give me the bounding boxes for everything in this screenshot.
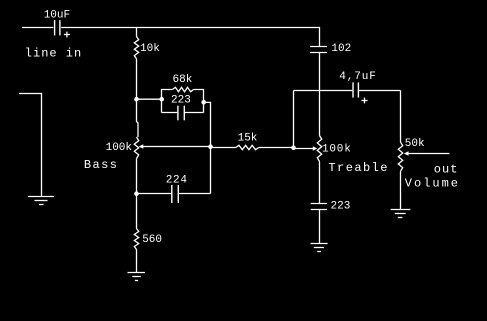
svg-text:4,7uF: 4,7uF [339, 71, 377, 83]
svg-text:10k: 10k [140, 43, 160, 55]
svg-text:15k: 15k [238, 132, 258, 144]
svg-text:out: out [434, 163, 459, 177]
svg-text:100k: 100k [106, 142, 133, 154]
svg-text:Bass: Bass [84, 158, 118, 172]
svg-text:10uF: 10uF [44, 9, 70, 21]
svg-text:223: 223 [331, 201, 351, 213]
svg-text:68k: 68k [173, 74, 193, 86]
svg-text:Volume: Volume [405, 176, 460, 190]
svg-text:223: 223 [171, 94, 191, 106]
svg-text:102: 102 [331, 43, 351, 55]
svg-text:100k: 100k [322, 143, 352, 155]
svg-text:560: 560 [142, 234, 162, 246]
svg-text:Treable: Treable [328, 161, 389, 175]
svg-text:50k: 50k [405, 138, 425, 150]
svg-text:224: 224 [166, 174, 188, 186]
svg-text:line in: line in [25, 47, 82, 61]
